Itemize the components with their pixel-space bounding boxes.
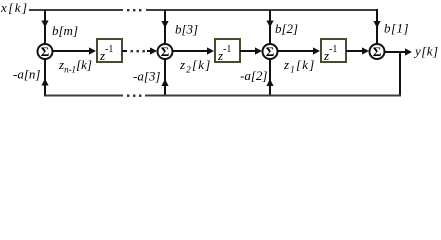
wire top rail segment 2 xyxy=(146,9,378,11)
wire S1 to delay block Z1 xyxy=(53,50,94,52)
svg-text:b[1]: b[1] xyxy=(384,21,409,36)
svg-text:z1[k]: z1[k] xyxy=(283,57,315,75)
wire -a[3] feedback vertical xyxy=(164,59,166,97)
arrowhead down on b[3] tap xyxy=(161,21,168,28)
svg-text:z2[k]: z2[k] xyxy=(179,57,211,75)
wire b[2] tap vertical xyxy=(269,10,271,44)
wire S3 to delay block Z3 xyxy=(278,50,318,52)
wire bottom rail continuation dots xyxy=(127,95,141,97)
wire bottom rail segment 1 xyxy=(45,95,123,97)
svg-text:b[2]: b[2] xyxy=(275,21,298,36)
wire b[1] tap vertical (top rail corner down) xyxy=(376,9,378,45)
summing junction S1 xyxy=(38,44,53,59)
wire Z1 output stub xyxy=(122,50,127,52)
svg-text:b[3]: b[3] xyxy=(175,22,198,37)
svg-text:-a[n]: -a[n] xyxy=(13,67,40,82)
arrowhead down on b[m] tap xyxy=(41,21,48,28)
wire top rail continuation dots xyxy=(127,9,141,11)
svg-text:Σ: Σ xyxy=(161,44,170,59)
summing junction S3 xyxy=(263,44,278,59)
arrowhead up on -a[n] feedback xyxy=(41,79,48,86)
summing junction S2 xyxy=(158,44,173,59)
arrowhead right into S3 xyxy=(255,47,262,54)
wire b[3] tap vertical xyxy=(164,10,166,44)
wire S4 to output xyxy=(385,51,410,53)
wire top rail segment 1 xyxy=(29,9,123,11)
wire -a[2] feedback vertical xyxy=(269,59,271,97)
wire middle rail continuation dots xyxy=(131,50,145,52)
svg-text:Σ: Σ xyxy=(266,44,275,59)
wire Z2 to S3 xyxy=(240,50,259,52)
arrowhead right into Z3 xyxy=(313,47,320,54)
delay block Z1 (z^-1) xyxy=(97,39,122,63)
wire bottom rail segment 2 xyxy=(145,95,401,97)
wire b[m] tap vertical xyxy=(44,10,46,44)
svg-text:Σ: Σ xyxy=(41,44,50,59)
arrowhead up on -a[3] feedback xyxy=(161,79,168,86)
arrowhead right into Z1 xyxy=(89,47,96,54)
svg-text:-a[2]: -a[2] xyxy=(240,68,267,83)
arrowhead up on -a[2] feedback xyxy=(266,79,273,86)
svg-text:y[k]: y[k] xyxy=(413,44,438,59)
svg-text:b[m]: b[m] xyxy=(52,23,78,38)
wire into S2 xyxy=(147,50,154,52)
arrowhead down on b[2] tap xyxy=(266,21,273,28)
wire S2 to delay block Z2 xyxy=(173,50,212,52)
wire -a[n] feedback vertical xyxy=(44,59,46,97)
delay block Z2 (z^-1) xyxy=(215,39,240,63)
arrowhead right into S2 xyxy=(150,47,157,54)
svg-text:-a[3]: -a[3] xyxy=(133,69,160,84)
arrowhead right at output xyxy=(405,48,412,55)
delay block Z3 (z^-1) xyxy=(321,39,346,63)
svg-text:Σ: Σ xyxy=(373,44,382,59)
wire Z3 to S4 xyxy=(346,50,366,52)
arrowhead right into Z2 xyxy=(207,47,214,54)
wire output feedback vertical at x=400 xyxy=(399,52,401,97)
summing junction S4 xyxy=(370,44,385,59)
arrowhead down on b[1] tap xyxy=(373,21,380,28)
arrowhead right into S4 xyxy=(362,47,369,54)
